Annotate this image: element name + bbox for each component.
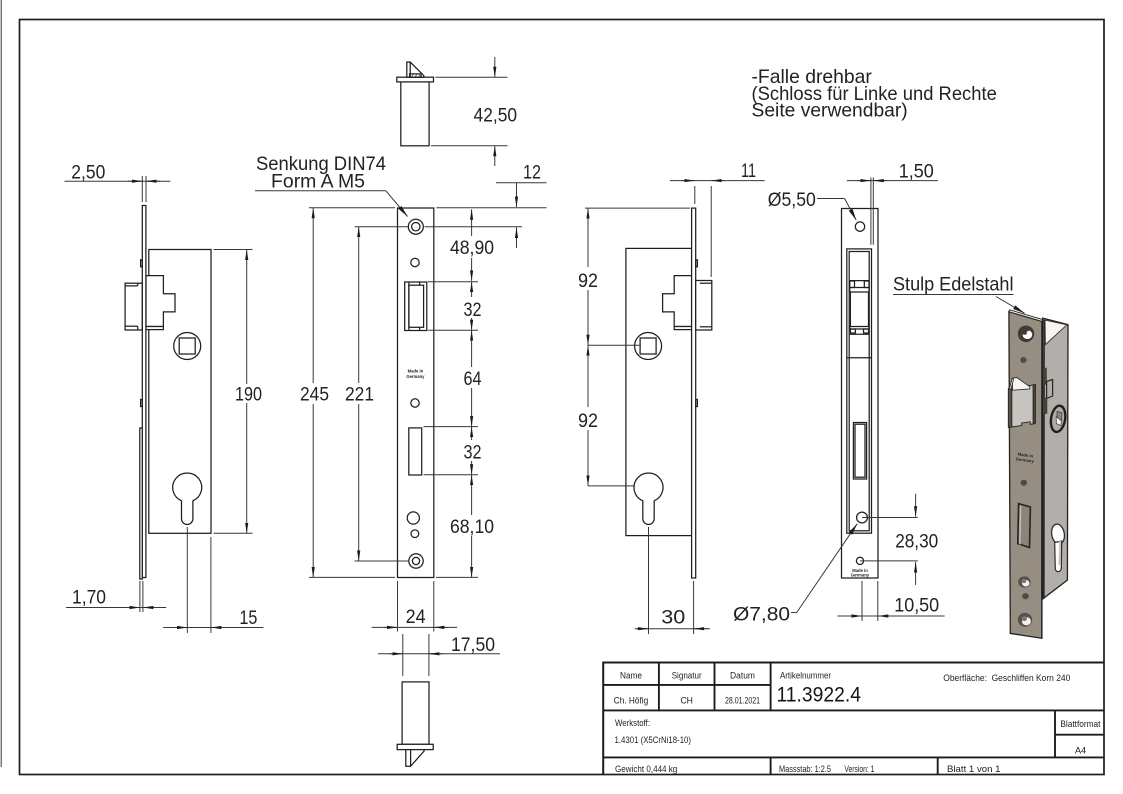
svg-text:190: 190: [235, 385, 262, 406]
3d euro cylinder hole: [1050, 523, 1066, 545]
svg-text:42,50: 42,50: [474, 105, 518, 126]
svg-text:32: 32: [464, 300, 482, 321]
3d faceplate top sliver: [1009, 310, 1043, 322]
3d case panel left shadow: [1043, 320, 1045, 598]
3d made in germany: [1015, 451, 1035, 464]
dim 64: [428, 329, 478, 331]
dim 48,90: [471, 209, 473, 236]
view2 countersunk hole top: [408, 219, 423, 234]
view2 countersunk hole bottom: [409, 554, 423, 568]
view4 latch cassette: [849, 280, 869, 282]
view4 faceplate outline: [842, 209, 879, 579]
svg-text:64: 64: [464, 369, 482, 390]
hatched bevel face: [410, 74, 421, 77]
svg-text:12: 12: [523, 163, 541, 184]
dim 68,10: [424, 474, 479, 476]
svg-text:1,70: 1,70: [72, 588, 106, 609]
dim 12: [436, 207, 546, 209]
dim 17,50: [402, 634, 404, 676]
view4 top hole: [855, 222, 864, 231]
svg-text:221: 221: [345, 385, 374, 406]
svg-text:24: 24: [406, 607, 426, 628]
svg-text:92: 92: [578, 271, 598, 292]
dim 30: [648, 527, 650, 634]
svg-text:Version: 1: Version: 1: [844, 764, 874, 774]
svg-text:32: 32: [464, 443, 482, 464]
detail view: latch bolt bottom: [402, 682, 429, 744]
view2 cylinder fixing hole: [407, 512, 419, 524]
title block grid: [603, 684, 770, 686]
view1 faceplate edge-on: [142, 206, 146, 578]
svg-text:68,10: 68,10: [450, 517, 494, 538]
svg-text:Artikelnummer: Artikelnummer: [780, 671, 831, 681]
3d bottom screw hole: [1018, 613, 1032, 627]
svg-text:28,30: 28,30: [895, 531, 938, 552]
3d small hole top: [1020, 357, 1026, 363]
svg-text:Ch. Höfig: Ch. Höfig: [614, 696, 648, 706]
dim 24: [397, 581, 399, 632]
screw ticks: [141, 260, 143, 267]
svg-text:CH: CH: [680, 696, 693, 706]
svg-text:Form A M5: Form A M5: [271, 170, 365, 192]
svg-text:Gewicht 0,444 kg: Gewicht 0,444 kg: [615, 764, 677, 774]
ext faceplate bottom right: [436, 576, 478, 578]
view1 square follower: [174, 333, 201, 360]
svg-text:92: 92: [578, 411, 598, 432]
view1 euro cylinder keyhole: [173, 473, 202, 525]
svg-text:Blatt 1 von 1: Blatt 1 von 1: [947, 764, 1001, 774]
view2 latch opening: [405, 282, 427, 331]
view4 small hole: [856, 557, 863, 564]
svg-text:1.4301 (X5CrNi18-10): 1.4301 (X5CrNi18-10): [615, 735, 692, 745]
view4 hole 7.8: [857, 512, 868, 523]
dim 42,50: [436, 76, 508, 78]
svg-text:15: 15: [239, 608, 257, 629]
svg-text:Oberfläche: Geschliffen Korn: Oberfläche: Geschliffen Korn 240: [943, 673, 1070, 683]
svg-text:1,50: 1,50: [899, 161, 934, 182]
view1 lock body: [149, 250, 211, 534]
view3 screw ticks: [696, 260, 698, 267]
3d case chamfer highlight: [1045, 320, 1067, 345]
view4 case opening: [847, 249, 872, 533]
svg-text:28.01.2021: 28.01.2021: [725, 696, 760, 706]
view4 case seam: [847, 357, 872, 359]
dim 32 top: [428, 281, 478, 283]
detail view: latch bolt top: [401, 82, 429, 146]
3d top screw hole: [1018, 326, 1034, 343]
3d deadbolt slot: [1018, 504, 1031, 548]
3d square follower rosette: [1049, 405, 1067, 433]
svg-text:Ø7,80: Ø7,80: [733, 604, 790, 626]
svg-text:17,50: 17,50: [451, 635, 495, 656]
3d case side panel: [1043, 318, 1068, 599]
view3 latch tail: [663, 276, 692, 327]
svg-text:10,50: 10,50: [894, 596, 939, 617]
dim 190: [214, 249, 253, 251]
svg-text:Made in: Made in: [408, 369, 424, 374]
svg-text:2,50: 2,50: [71, 163, 105, 184]
svg-text:Werkstoff:: Werkstoff:: [615, 718, 650, 728]
svg-text:48,90: 48,90: [450, 238, 494, 259]
view2 small hole 3: [411, 530, 419, 538]
svg-text:Blattformat: Blattformat: [1060, 719, 1100, 729]
3d latch bolt: [1008, 388, 1012, 427]
svg-text:Massstab: 1:2.5: Massstab: 1:2.5: [779, 764, 831, 774]
view1 latch head: [125, 283, 142, 330]
svg-text:Seite verwendbar): Seite verwendbar): [752, 100, 908, 122]
3d faceplate front: [1009, 312, 1042, 639]
dim 245: [309, 207, 395, 209]
svg-text:A4: A4: [1075, 745, 1086, 755]
view2 deadbolt opening: [409, 428, 422, 475]
3d latch tail on panel: [1043, 368, 1047, 386]
dim 221: [355, 226, 409, 228]
view2 small hole: [411, 258, 419, 266]
svg-text:Germany: Germany: [406, 374, 425, 379]
view3 euro cylinder keyhole: [634, 473, 663, 525]
page edge line: [0, 0, 2, 767]
view2 small hole 2: [411, 399, 419, 407]
svg-text:11.3922.4: 11.3922.4: [777, 684, 862, 707]
dim 10,50: [861, 581, 863, 621]
svg-text:245: 245: [300, 385, 329, 406]
view3 latch head: [696, 281, 712, 331]
title block outer: [603, 663, 1104, 776]
view3 faceplate edge-on: [692, 208, 696, 578]
svg-text:Datum: Datum: [730, 671, 755, 681]
dim 1,70: [139, 581, 141, 612]
dim 1,50: [870, 178, 872, 245]
svg-text:11: 11: [741, 161, 756, 182]
view3 lock body: [626, 248, 692, 535]
dim 28,30: [862, 517, 918, 519]
3d plate right edge: [1041, 322, 1043, 638]
svg-text:Stulp Edelstahl: Stulp Edelstahl: [893, 274, 1014, 296]
view3 square follower: [635, 333, 662, 360]
svg-text:Signatur: Signatur: [672, 671, 702, 681]
svg-text:Germany: Germany: [851, 573, 870, 578]
view1 latch tail: [146, 276, 175, 327]
svg-text:30: 30: [661, 607, 685, 628]
view4 deadbolt: [853, 423, 866, 480]
svg-text:Name: Name: [620, 671, 642, 681]
svg-text:Ø5,50: Ø5,50: [768, 189, 816, 211]
dim 15: [186, 527, 188, 633]
3d small hole mid: [1021, 480, 1027, 486]
3d bottom countersunk hole: [1018, 576, 1030, 587]
3d bottom small hole: [1022, 593, 1029, 599]
dim 92 x2: [585, 207, 690, 209]
dim 32 bottom: [424, 426, 479, 428]
dim 11: [694, 186, 696, 204]
view2 faceplate front: [398, 208, 434, 578]
dim 2,50: [141, 176, 143, 202]
